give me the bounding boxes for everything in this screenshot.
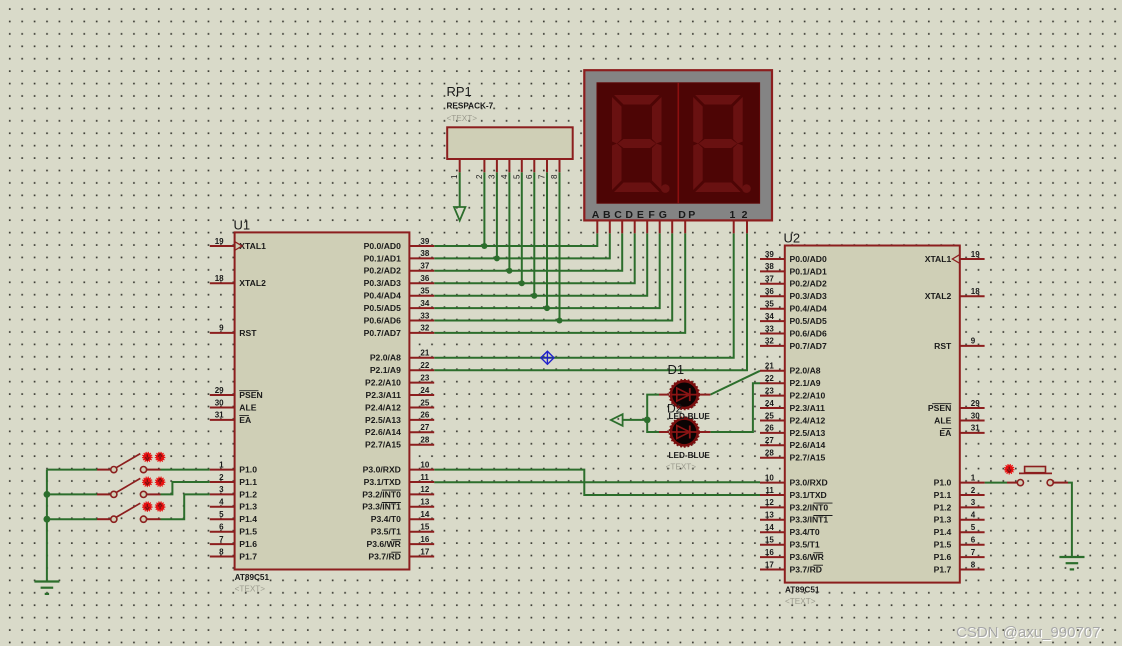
7SEG pins	[597, 221, 747, 234]
svg-text:CSDN @axu_990707: CSDN @axu_990707	[956, 624, 1100, 641]
U2 pin 12 (P3.2/INT0)	[760, 498, 833, 512]
wire RP1 pin 5 down to P0.3 net	[521, 172, 523, 283]
svg-text:P3.0/RXD: P3.0/RXD	[363, 465, 401, 475]
svg-text:31: 31	[215, 411, 224, 420]
svg-text:P2.6/A14: P2.6/A14	[365, 427, 401, 437]
svg-text:36: 36	[420, 274, 429, 283]
svg-text:<TEXT>: <TEXT>	[235, 585, 266, 594]
svg-text:P1.2: P1.2	[934, 502, 952, 512]
svg-text:12: 12	[420, 485, 429, 494]
svg-text:P1.3: P1.3	[934, 515, 952, 525]
svg-text:P2.0/A8: P2.0/A8	[790, 366, 821, 376]
svg-text:P1.6: P1.6	[934, 552, 952, 562]
svg-text:28: 28	[765, 449, 774, 458]
U2 pin 16 (P3.6/WR)	[760, 548, 825, 562]
svg-text:P3.5/T1: P3.5/T1	[790, 540, 820, 550]
U1 pin 24 (P2.3/A11)	[366, 386, 435, 400]
U2 pin 38 (P0.1/AD1)	[760, 262, 827, 276]
U1 pin 6 (P1.5)	[210, 523, 257, 537]
U2 pin 29 (PSEN)	[928, 399, 985, 413]
svg-text:13: 13	[765, 511, 774, 520]
svg-text:P0.1/AD1: P0.1/AD1	[790, 266, 827, 276]
U2 pin 17 (P3.7/RD)	[760, 560, 823, 574]
svg-text:ALE: ALE	[934, 415, 951, 425]
svg-text:4: 4	[219, 498, 224, 507]
svg-text:EA: EA	[939, 428, 951, 438]
label RP1 value RESPACK-7	[447, 102, 494, 111]
wire RP1 pin 2 down to P0.0 net	[483, 172, 485, 246]
svg-text:7: 7	[538, 174, 547, 179]
svg-text:P0.4/AD4: P0.4/AD4	[790, 304, 827, 314]
svg-text:P0.5/AD5: P0.5/AD5	[364, 303, 401, 313]
junction LED anode bus / terminal	[644, 417, 651, 424]
resistor pack RP1 (RESPACK-7)	[447, 127, 573, 159]
RP1 pin 1	[450, 159, 460, 179]
svg-text:XTAL2: XTAL2	[925, 291, 952, 301]
svg-text:35: 35	[420, 287, 429, 296]
svg-text:P1.5: P1.5	[239, 527, 257, 537]
junction RP1 pin 8 / P0.6	[557, 318, 563, 324]
svg-text:17: 17	[420, 547, 429, 556]
7SEG digit 1 segments	[612, 95, 670, 193]
7-segment dual display body	[584, 70, 772, 220]
U1 pin 9 (RST)	[210, 324, 257, 338]
label LED-BLUE (D1)	[669, 412, 711, 421]
U1 pin 21 (P2.0/A8)	[370, 349, 434, 363]
junction RP1 pin 2 / P0.0	[481, 243, 487, 249]
wire RP1 pin 3 down to P0.1 net	[496, 172, 498, 258]
terminal (output arrow) below RP1 pin 1	[454, 207, 465, 221]
svg-text:P1.4: P1.4	[934, 527, 952, 537]
svg-text:D1: D1	[668, 362, 685, 377]
wire RP1 pin 6 down to P0.4 net	[533, 172, 535, 296]
U2 pin 9 (RST)	[934, 337, 984, 351]
svg-text:<TEXT>: <TEXT>	[447, 114, 478, 123]
svg-text:12: 12	[765, 498, 774, 507]
svg-text:PSEN: PSEN	[928, 403, 951, 413]
svg-text:P2.4/A12: P2.4/A12	[365, 402, 401, 412]
origin marker (blue diamond) on P2.0 net	[541, 351, 554, 364]
svg-text:DP: DP	[678, 209, 698, 221]
junction bus / SW2	[44, 491, 51, 498]
svg-text:P1.6: P1.6	[239, 539, 257, 549]
svg-text:29: 29	[971, 399, 980, 408]
svg-text:P2.1/A9: P2.1/A9	[790, 378, 821, 388]
svg-text:37: 37	[420, 262, 429, 271]
svg-text:31: 31	[971, 424, 980, 433]
SW1 toggle buttons (red)	[143, 452, 165, 461]
wire SW1 to U1 P1.0	[161, 469, 210, 471]
wire U1 P3.0/RXD to U2 P3.1/TXD	[434, 470, 760, 495]
svg-text:17: 17	[765, 560, 774, 569]
svg-text:P3.4/T0: P3.4/T0	[371, 514, 401, 524]
U2 pin 15 (P3.5/T1)	[760, 536, 820, 550]
svg-text:24: 24	[765, 399, 774, 408]
svg-text:P1.0: P1.0	[239, 465, 257, 475]
svg-text:XTAL1: XTAL1	[925, 254, 952, 264]
svg-text:PSEN: PSEN	[239, 390, 262, 400]
svg-text:3: 3	[219, 485, 224, 494]
junction RP1 pin 5 / P0.3	[519, 280, 525, 286]
svg-text:38: 38	[765, 262, 774, 271]
U1 pin 11 (P3.1/TXD)	[364, 473, 435, 487]
svg-text:28: 28	[420, 436, 429, 445]
U1 pin 3 (P1.2)	[210, 485, 257, 499]
svg-text:LED-BLUE: LED-BLUE	[669, 451, 711, 460]
wire U1 P0.4 to 7SEG segment E	[434, 233, 647, 295]
svg-text:P2.5/A13: P2.5/A13	[790, 428, 826, 438]
svg-text:P0.7/AD7: P0.7/AD7	[790, 341, 827, 351]
label LED-BLUE (D2)	[669, 451, 711, 460]
wire RP1 pin 7 down to P0.5 net	[546, 172, 548, 308]
junction RP1 pin 4 / P0.2	[506, 268, 512, 274]
wire U1 P0.2 to 7SEG segment C	[434, 233, 622, 270]
svg-text:P1.7: P1.7	[239, 551, 257, 561]
svg-text:P2.6/A14: P2.6/A14	[790, 440, 826, 450]
svg-text:P1.1: P1.1	[934, 490, 952, 500]
svg-text:10: 10	[765, 473, 774, 482]
label U1 <TEXT>	[235, 585, 266, 594]
RP1 pin 2	[475, 159, 485, 179]
U1 pin 30 (ALE)	[210, 398, 257, 412]
wire RP1 pin 4 down to P0.2 net	[508, 172, 510, 271]
svg-text:2: 2	[971, 486, 976, 495]
svg-text:XTAL2: XTAL2	[239, 278, 266, 288]
wire U1 P0.7 to 7SEG DP	[434, 233, 685, 333]
U1 pin 10 (P3.0/RXD)	[363, 460, 435, 474]
svg-text:4: 4	[971, 511, 976, 520]
switch SW2 (interactive)	[97, 478, 161, 497]
svg-text:36: 36	[765, 287, 774, 296]
U1 pin 27 (P2.6/A14)	[365, 423, 434, 437]
svg-text:22: 22	[420, 361, 429, 370]
U1 pin 28 (P2.7/A15)	[365, 436, 434, 450]
svg-text:19: 19	[971, 250, 980, 259]
U1 pin 15 (P3.5/T1)	[371, 523, 434, 537]
label U1 value AT89C51	[235, 573, 270, 582]
svg-text:3: 3	[487, 174, 496, 179]
U1 pin 39 (P0.0/AD0)	[364, 237, 435, 251]
wire U2 P1.0 to button	[985, 482, 1007, 484]
switch SW3 (interactive)	[97, 503, 161, 522]
svg-text:P3.4/T0: P3.4/T0	[790, 527, 820, 537]
RP1 pin 6	[525, 159, 535, 179]
svg-text:P0.6/AD6: P0.6/AD6	[790, 328, 827, 338]
svg-text:14: 14	[765, 523, 774, 532]
op: IC U2 AT89C51 body	[785, 246, 960, 583]
svg-text:9: 9	[971, 337, 976, 346]
svg-text:5: 5	[512, 174, 521, 179]
wire LED D2 cathode to U2 P2.1	[710, 383, 760, 432]
svg-text:16: 16	[420, 535, 429, 544]
U2 pin 33 (P0.6/AD6)	[760, 324, 827, 338]
svg-text:35: 35	[765, 300, 774, 309]
svg-text:P3.3/INT1: P3.3/INT1	[790, 515, 829, 525]
U1 pin 4 (P1.3)	[210, 498, 257, 512]
wire U1 P2.0 (pin 21) to 7SEG digit-1 common	[434, 233, 734, 357]
svg-text:37: 37	[765, 275, 774, 284]
svg-text:P1.7: P1.7	[934, 564, 952, 574]
svg-text:25: 25	[420, 398, 429, 407]
svg-text:P0.1/AD1: P0.1/AD1	[364, 253, 401, 263]
svg-text:22: 22	[765, 374, 774, 383]
U1 pin 2 (P1.1)	[210, 473, 257, 487]
U1 pin 25 (P2.4/A12)	[365, 398, 434, 412]
svg-text:32: 32	[765, 337, 774, 346]
svg-text:P2.4/A12: P2.4/A12	[790, 415, 826, 425]
svg-text:3: 3	[971, 498, 976, 507]
junction RP1 pin 6 / P0.4	[531, 293, 537, 299]
U2 pin 28 (P2.7/A15)	[760, 449, 826, 463]
wire U1 P2.1 (pin 22) to 7SEG digit-2 common	[434, 233, 747, 370]
svg-text:P3.7/RD: P3.7/RD	[790, 564, 822, 574]
svg-text:RST: RST	[239, 328, 257, 338]
label RP1 reference	[447, 84, 472, 99]
U2 pin 3 (P1.2)	[934, 498, 985, 512]
U2 pin 2 (P1.1)	[934, 486, 985, 500]
svg-text:P3.2/INT0: P3.2/INT0	[790, 502, 829, 512]
svg-text:P1.0: P1.0	[934, 478, 952, 488]
U1 pin 38 (P0.1/AD1)	[364, 249, 435, 263]
svg-text:P2.3/A11: P2.3/A11	[366, 390, 402, 400]
label D2 <TEXT>	[666, 463, 697, 472]
U2 pin 6 (P1.5)	[934, 536, 985, 550]
svg-text:1: 1	[219, 460, 224, 469]
svg-text:P0.3/AD3: P0.3/AD3	[364, 278, 401, 288]
svg-text:B: B	[603, 209, 611, 221]
svg-text:P1.3: P1.3	[239, 502, 257, 512]
wire LED D1 cathode to U2 P2.0 (diagonal)	[710, 371, 760, 395]
U1 pin 32 (P0.7/AD7)	[364, 324, 435, 338]
svg-text:P0.0/AD0: P0.0/AD0	[364, 241, 401, 251]
svg-text:14: 14	[420, 510, 429, 519]
svg-text:26: 26	[765, 424, 774, 433]
U2 pin 27 (P2.6/A14)	[760, 436, 826, 450]
svg-text:P0.2/AD2: P0.2/AD2	[790, 279, 827, 289]
U2 pin 32 (P0.7/AD7)	[760, 337, 827, 351]
svg-text:EA: EA	[239, 415, 251, 425]
svg-text:P3.1/TXD: P3.1/TXD	[790, 490, 827, 500]
wire RP1 pin 1 to terminal	[459, 172, 461, 207]
svg-text:21: 21	[765, 362, 774, 371]
U2 pin 5 (P1.4)	[934, 523, 985, 537]
U1 pin 35 (P0.4/AD4)	[364, 287, 435, 301]
U1 pin 34 (P0.5/AD5)	[364, 299, 435, 313]
U2 pin 25 (P2.4/A12)	[760, 411, 826, 425]
U2 pin 26 (P2.5/A13)	[760, 424, 826, 438]
svg-text:P2.3/A11: P2.3/A11	[790, 403, 826, 413]
U2 pin 24 (P2.3/A11)	[760, 399, 825, 413]
label D2 reference (partially hidden)	[667, 402, 683, 416]
svg-text:32: 32	[420, 324, 429, 333]
svg-text:P0.6/AD6: P0.6/AD6	[364, 315, 401, 325]
wire RP1 pin 8 down to P0.6 net	[559, 172, 561, 320]
svg-text:10: 10	[420, 460, 429, 469]
svg-text:34: 34	[765, 312, 774, 321]
svg-text:1: 1	[450, 174, 459, 179]
op: IC U1 AT89C51 body	[235, 232, 410, 569]
U2 pin 4 (P1.3)	[934, 511, 985, 525]
wire button to ground	[1068, 483, 1072, 557]
svg-text:27: 27	[765, 436, 774, 445]
U2 pin 14 (P3.4/T0)	[760, 523, 820, 537]
svg-text:25: 25	[765, 411, 774, 420]
LED D1 (LED-BLUE)	[659, 380, 710, 409]
U2 pin 34 (P0.5/AD5)	[760, 312, 827, 326]
wire U1 P0.0 to 7SEG segment A	[434, 233, 597, 246]
junction RP1 pin 3 / P0.1	[494, 255, 500, 261]
U2 pin 21 (P2.0/A8)	[760, 362, 821, 376]
svg-text:P0.4/AD4: P0.4/AD4	[364, 291, 401, 301]
U2 pin 7 (P1.6)	[934, 548, 985, 562]
svg-text:LED-BLUE: LED-BLUE	[669, 412, 711, 421]
svg-text:8: 8	[550, 174, 559, 179]
svg-text:4: 4	[500, 174, 509, 179]
svg-text:9: 9	[219, 324, 224, 333]
svg-text:33: 33	[765, 324, 774, 333]
svg-text:AT89C51: AT89C51	[785, 586, 820, 595]
wire bus to SW1	[47, 469, 97, 471]
push button (interactive)	[1007, 467, 1068, 486]
U2 pin 19 (XTAL1)	[925, 250, 985, 264]
svg-text:8: 8	[219, 547, 224, 556]
svg-text:30: 30	[215, 398, 224, 407]
U2 pin 39 (P0.0/AD0)	[760, 250, 827, 264]
U1 pin 19 (XTAL1)	[210, 237, 266, 251]
wire bus to SW2	[47, 493, 97, 495]
ground symbol bottom-left	[34, 582, 59, 594]
U1 pin 29 (PSEN)	[210, 386, 263, 400]
svg-text:C: C	[614, 209, 622, 221]
svg-text:XTAL1: XTAL1	[239, 241, 266, 251]
RP1 pin 4	[500, 159, 510, 179]
svg-text:27: 27	[420, 423, 429, 432]
U1 pin 13 (P3.3/INT1)	[362, 498, 434, 512]
svg-text:P2.7/A15: P2.7/A15	[365, 440, 401, 450]
svg-text:P3.2/INT0: P3.2/INT0	[362, 489, 401, 499]
U2 pin 23 (P2.2/A10)	[760, 386, 826, 400]
terminal (arrow) left of D1	[611, 414, 623, 426]
svg-text:2: 2	[475, 174, 484, 179]
svg-text:P3.7/RD: P3.7/RD	[368, 551, 400, 561]
U2 pin 31 (EA)	[939, 424, 984, 438]
svg-text:15: 15	[420, 523, 429, 532]
svg-text:19: 19	[215, 237, 224, 246]
U1 pin 5 (P1.4)	[210, 510, 257, 524]
svg-text:P2.2/A10: P2.2/A10	[790, 391, 826, 401]
svg-text:P2.1/A9: P2.1/A9	[370, 365, 401, 375]
RP1 pin 3	[487, 159, 497, 179]
junction RP1 pin 7 / P0.5	[544, 305, 550, 311]
wire U1 P0.1 to 7SEG segment B	[434, 233, 610, 258]
junction bus / SW3	[44, 516, 51, 523]
svg-text:P3.0/RXD: P3.0/RXD	[790, 478, 828, 488]
svg-text:23: 23	[765, 386, 774, 395]
svg-text:RESPACK-7: RESPACK-7	[447, 102, 494, 111]
U2 pin 1 (P1.0)	[934, 473, 985, 487]
U1 pin 18 (XTAL2)	[210, 274, 266, 288]
U1 pin 26 (P2.5/A13)	[365, 411, 434, 425]
svg-text:P1.5: P1.5	[934, 540, 952, 550]
svg-text:18: 18	[971, 287, 980, 296]
svg-text:F: F	[648, 209, 655, 221]
U1 pin 14 (P3.4/T0)	[371, 510, 434, 524]
label U2 reference	[784, 231, 801, 246]
U1 pin 36 (P0.3/AD3)	[364, 274, 435, 288]
svg-text:33: 33	[420, 311, 429, 320]
svg-text:RP1: RP1	[447, 84, 472, 99]
U2 pin 18 (XTAL2)	[925, 287, 985, 301]
svg-text:1: 1	[971, 473, 976, 482]
ground symbol bottom-right	[1059, 557, 1084, 569]
wire SW2 to U1 P1.1	[161, 482, 210, 494]
svg-text:P1.4: P1.4	[239, 514, 257, 524]
svg-text:U1: U1	[234, 218, 251, 233]
svg-text:8: 8	[971, 560, 976, 569]
U1 pin 16 (P3.6/WR)	[367, 535, 435, 549]
svg-text:E: E	[637, 209, 644, 221]
wire U1 P0.5 to 7SEG segment F	[434, 233, 660, 308]
7SEG digit 2 segments	[693, 95, 751, 193]
U1 pin 23 (P2.2/A10)	[365, 373, 434, 387]
svg-text:P0.0/AD0: P0.0/AD0	[790, 254, 827, 264]
U1 pin 22 (P2.1/A9)	[370, 361, 434, 375]
U1 pin 8 (P1.7)	[210, 547, 257, 561]
svg-text:39: 39	[420, 237, 429, 246]
svg-text:P1.1: P1.1	[239, 477, 257, 487]
wire U1 P3.1/TXD to U2 P3.0/RXD	[434, 481, 760, 483]
U2 pin 30 (ALE)	[934, 411, 984, 425]
switch SW1 (interactive)	[97, 454, 161, 473]
svg-text:A: A	[592, 209, 600, 221]
svg-text:P0.5/AD5: P0.5/AD5	[790, 316, 827, 326]
svg-text:P0.2/AD2: P0.2/AD2	[364, 266, 401, 276]
U2 pin 10 (P3.0/RXD)	[760, 473, 828, 487]
wire LED anode bus vertical	[647, 395, 659, 432]
wire terminal to LED anode bus	[623, 419, 648, 421]
U2 pin 36 (P0.3/AD3)	[760, 287, 827, 301]
svg-text:23: 23	[420, 373, 429, 382]
wire U1 P0.6 to 7SEG segment G	[434, 233, 672, 320]
svg-text:D: D	[625, 209, 633, 221]
svg-text:P2.2/A10: P2.2/A10	[365, 378, 401, 388]
svg-text:P2.7/A15: P2.7/A15	[790, 453, 826, 463]
svg-text:24: 24	[420, 386, 429, 395]
svg-text:11: 11	[765, 486, 774, 495]
svg-text:P0.3/AD3: P0.3/AD3	[790, 291, 827, 301]
svg-text:P2.5/A13: P2.5/A13	[365, 415, 401, 425]
U1 pin 33 (P0.6/AD6)	[364, 311, 435, 325]
label U2 <TEXT>	[785, 597, 816, 606]
U1 pin 17 (P3.7/RD)	[368, 547, 434, 561]
svg-text:P2.0/A8: P2.0/A8	[370, 353, 401, 363]
U1 pin 1 (P1.0)	[210, 460, 257, 474]
wire bus to SW3	[47, 518, 97, 520]
svg-text:<TEXT>: <TEXT>	[785, 597, 816, 606]
svg-text:P3.5/T1: P3.5/T1	[371, 527, 401, 537]
svg-text:29: 29	[215, 386, 224, 395]
svg-text:ALE: ALE	[239, 402, 256, 412]
U2 pin 22 (P2.1/A9)	[760, 374, 821, 388]
SW2 toggle buttons (red)	[143, 477, 165, 486]
U2 pin 35 (P0.4/AD4)	[760, 300, 827, 314]
svg-text:U2: U2	[784, 231, 801, 246]
svg-text:P0.7/AD7: P0.7/AD7	[364, 328, 401, 338]
svg-text:P3.6/WR: P3.6/WR	[790, 552, 825, 562]
7SEG pin labels A-G DP 1 2	[592, 209, 748, 221]
U1 pin 7 (P1.6)	[210, 535, 257, 549]
svg-text:5: 5	[219, 510, 224, 519]
